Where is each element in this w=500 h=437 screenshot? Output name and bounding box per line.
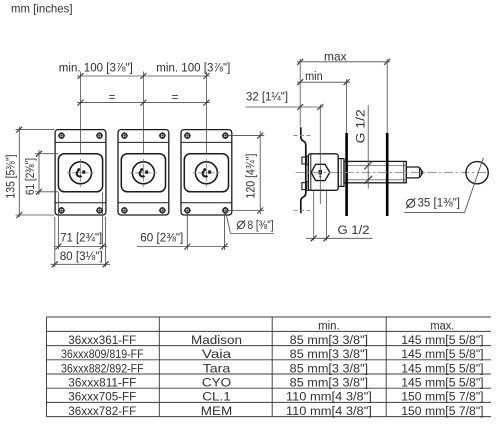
equality dimension line bbox=[77, 102, 210, 104]
plate 2 rounded escutcheon bbox=[121, 154, 165, 192]
plate 2 top band line bbox=[118, 141, 169, 143]
spindle cone tip bbox=[420, 168, 423, 178]
plate 3 screw bottom-left bbox=[184, 207, 191, 214]
svg-text:min. 100 [3⅞"]: min. 100 [3⅞"] bbox=[59, 61, 133, 75]
svg-text:145 mm[5 5/8"]: 145 mm[5 5/8"] bbox=[401, 361, 483, 375]
svg-text:85 mm[3 3/8"]: 85 mm[3 3/8"] bbox=[290, 347, 368, 361]
svg-text:110 mm[4 3/8"]: 110 mm[4 3/8"] bbox=[286, 390, 372, 404]
plate 1 outline bbox=[55, 130, 106, 215]
plate 3 top band line bbox=[181, 141, 232, 143]
svg-text:85 mm[3 3/8"]: 85 mm[3 3/8"] bbox=[290, 333, 368, 347]
svg-text:=: = bbox=[172, 92, 179, 104]
plate 1 cartridge square bbox=[82, 170, 85, 173]
svg-text:145 mm[5 5/8"]: 145 mm[5 5/8"] bbox=[401, 376, 483, 390]
plate 3 cartridge dot bbox=[203, 168, 206, 171]
svg-text:8 [⅜"]: 8 [⅜"] bbox=[248, 218, 274, 232]
plate 1 cartridge dot bbox=[77, 168, 80, 171]
valve body bbox=[308, 154, 338, 191]
diameter 35 symbol bbox=[406, 198, 415, 208]
svg-text:150 mm[5 7/8"]: 150 mm[5 7/8"] bbox=[401, 404, 483, 418]
table grid bbox=[47, 317, 492, 417]
svg-text:32 [1¼"]: 32 [1¼"] bbox=[246, 89, 288, 103]
svg-text:36xxx361-FF: 36xxx361-FF bbox=[68, 333, 136, 347]
table row 4 bbox=[61, 361, 484, 375]
extension line plate bottom bbox=[16, 214, 55, 216]
plate 2 vertical centerline extension bbox=[142, 72, 144, 154]
threaded tube G1/2 bbox=[344, 161, 406, 182]
plate 1 rounded escutcheon bbox=[58, 154, 102, 192]
valve body flange line bbox=[310, 154, 312, 191]
hexagon nut bbox=[311, 164, 330, 180]
svg-text:120 [4¾"]: 120 [4¾"] bbox=[244, 154, 258, 199]
svg-text:61 [2⅜"]: 61 [2⅜"] bbox=[23, 158, 37, 195]
plate 1 top band line bbox=[55, 141, 106, 143]
dimension max line bbox=[297, 61, 390, 63]
plate 3 screw top-right bbox=[222, 132, 229, 139]
svg-text:36xxx809/819-FF: 36xxx809/819-FF bbox=[61, 347, 144, 361]
plate 3 screw bottom-right bbox=[222, 207, 229, 214]
plate 1 screw bottom-right bbox=[96, 207, 103, 214]
svg-text:60 [2⅜"]: 60 [2⅜"] bbox=[140, 230, 183, 244]
inlet G1/2 dimension line bbox=[306, 237, 373, 239]
svg-text:145 mm[5 5/8"]: 145 mm[5 5/8"] bbox=[401, 347, 483, 361]
dimension 80 extension lines bbox=[54, 217, 56, 267]
plate 2 screw top-right bbox=[159, 132, 166, 139]
plate 2 valve opening circle bbox=[132, 162, 154, 184]
svg-text:min.: min. bbox=[318, 319, 340, 333]
plate 1 cartridge arc bbox=[77, 171, 82, 177]
thread G1/2 dimension line bbox=[367, 105, 369, 189]
dimension 71 line bbox=[54, 246, 107, 248]
svg-text:110 mm[4 3/8"]: 110 mm[4 3/8"] bbox=[286, 404, 372, 418]
plate 1 crosshair centerlines bbox=[67, 172, 94, 174]
svg-text:G 1/2: G 1/2 bbox=[354, 109, 368, 143]
svg-text:min: min bbox=[305, 69, 323, 83]
table row 2 bbox=[68, 333, 483, 347]
plate 3 vertical centerline extension bbox=[205, 72, 207, 154]
plate 2 screw top-left bbox=[121, 132, 128, 139]
plate 3 crosshair centerlines bbox=[193, 172, 220, 174]
bracket hole centerline top bbox=[294, 135, 311, 137]
plate 1 screw top-right bbox=[96, 132, 103, 139]
extension line bracket back bbox=[299, 59, 301, 127]
svg-text:85 mm[3 3/8"]: 85 mm[3 3/8"] bbox=[290, 376, 368, 390]
dimension 60 line bbox=[137, 246, 229, 248]
plate 2 screw bottom-right bbox=[159, 207, 166, 214]
plate 2 outline bbox=[118, 130, 169, 215]
diameter 35 leader bbox=[404, 212, 464, 214]
table row 6 bbox=[68, 390, 483, 404]
svg-text:135 [5⅜"]: 135 [5⅜"] bbox=[3, 155, 17, 199]
svg-text:max: max bbox=[324, 49, 347, 63]
port axis extension line bbox=[319, 105, 321, 205]
plate 2 crosshair centerlines bbox=[130, 172, 157, 174]
svg-text:mm [inches]: mm [inches] bbox=[11, 2, 73, 16]
handle rosette circle bbox=[466, 162, 488, 184]
plate 1 screw bottom-left bbox=[58, 207, 65, 214]
svg-text:Tara: Tara bbox=[203, 361, 231, 375]
diameter 8 symbol bbox=[237, 220, 245, 229]
spindle bbox=[406, 167, 419, 178]
extension line escutcheon top bbox=[35, 153, 58, 155]
plate 3 bottom band line bbox=[181, 202, 232, 204]
svg-text:CL.1: CL.1 bbox=[202, 390, 231, 404]
svg-text:36xxx811-FF: 36xxx811-FF bbox=[68, 376, 136, 390]
svg-text:min. 100 [3⅞"]: min. 100 [3⅞"] bbox=[156, 61, 230, 75]
plate 1 bottom band line bbox=[55, 202, 106, 204]
plate 3 cartridge square bbox=[208, 170, 211, 173]
plate 3 valve opening circle bbox=[195, 162, 217, 184]
finished wall line min bbox=[345, 133, 348, 216]
svg-text:MEM: MEM bbox=[201, 404, 233, 418]
mounting bolt upper bbox=[302, 156, 308, 165]
svg-text:145 mm[5 5/8"]: 145 mm[5 5/8"] bbox=[401, 333, 483, 347]
plate 1 vertical centerline extension bbox=[80, 72, 82, 154]
svg-text:36xxx782-FF: 36xxx782-FF bbox=[68, 404, 136, 418]
svg-text:150 mm[5 7/8"]: 150 mm[5 7/8"] bbox=[401, 390, 483, 404]
svg-text:35 [1⅜"]: 35 [1⅜"] bbox=[418, 196, 461, 210]
dimension 80 line bbox=[51, 263, 111, 265]
dimension min.100 line bbox=[77, 75, 210, 77]
dimension 71 extension lines bbox=[57, 193, 59, 250]
extension line escutcheon bottom bbox=[35, 191, 58, 193]
extension line wall min bbox=[346, 79, 348, 133]
inlet port extension lines bbox=[313, 190, 315, 240]
svg-text:Vaia: Vaia bbox=[202, 347, 231, 361]
dimension 135 line bbox=[18, 127, 20, 218]
svg-text:Madison: Madison bbox=[191, 333, 242, 347]
svg-text:80 [3⅛"]: 80 [3⅛"] bbox=[60, 249, 103, 263]
finished wall line max bbox=[386, 133, 389, 216]
wall bracket bbox=[301, 127, 306, 213]
extension line plate top bbox=[16, 129, 55, 131]
plate 1 valve opening circle bbox=[70, 162, 92, 184]
mounting bolt lower bbox=[302, 182, 308, 191]
plate 3 cartridge arc bbox=[203, 171, 208, 177]
plate 2 bottom band line bbox=[118, 202, 169, 204]
plate 3 screw top-left bbox=[184, 132, 191, 139]
plate 2 cartridge arc bbox=[140, 171, 145, 177]
svg-text:36xxx882/892-FF: 36xxx882/892-FF bbox=[61, 361, 144, 375]
thread core lines bbox=[344, 164, 406, 166]
plate 1 screw top-left bbox=[58, 132, 65, 139]
plate 3 outline bbox=[181, 130, 232, 215]
dimension 32 line bbox=[246, 106, 324, 108]
main axis centerline bbox=[296, 171, 489, 173]
dimension min line bbox=[297, 81, 350, 83]
svg-text:max.: max. bbox=[430, 319, 454, 333]
table row 3 bbox=[61, 347, 484, 361]
diameter 8 leader bbox=[226, 213, 231, 234]
dimension 120 line bbox=[259, 131, 261, 215]
plate 2 cartridge dot bbox=[140, 168, 143, 171]
dimension 61 line bbox=[38, 150, 40, 195]
svg-text:CYO: CYO bbox=[202, 376, 232, 390]
collar bbox=[338, 159, 344, 187]
plate 2 cartridge square bbox=[145, 170, 148, 173]
table row 1 bbox=[318, 319, 454, 333]
svg-text:71 [2¾"]: 71 [2¾"] bbox=[60, 230, 102, 244]
dimension 60 extension lines bbox=[186, 213, 188, 250]
extension line wall max bbox=[386, 59, 388, 133]
bracket hole centerline bottom bbox=[294, 209, 311, 211]
extension line screw top-right bbox=[226, 135, 265, 137]
table row 7 bbox=[68, 404, 483, 418]
plate 3 rounded escutcheon bbox=[184, 154, 228, 192]
extension line screw bottom-right bbox=[226, 210, 265, 212]
plate 2 screw bottom-left bbox=[121, 207, 128, 214]
svg-text:G 1/2: G 1/2 bbox=[338, 223, 370, 237]
table row 5 bbox=[68, 376, 483, 390]
hexagon center square bbox=[319, 170, 322, 174]
svg-text:85 mm[3 3/8"]: 85 mm[3 3/8"] bbox=[290, 361, 368, 375]
svg-text:36xxx705-FF: 36xxx705-FF bbox=[68, 390, 136, 404]
svg-text:=: = bbox=[109, 92, 116, 104]
